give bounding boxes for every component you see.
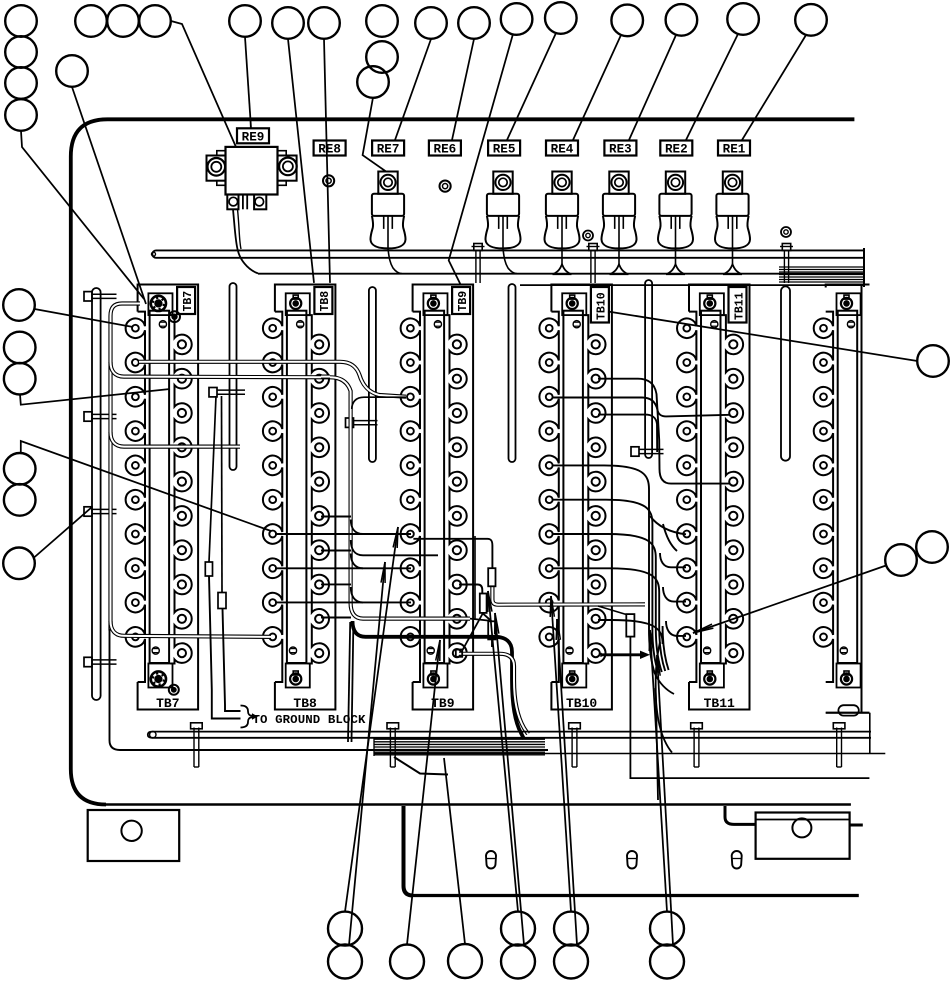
relay RE5 [485, 172, 520, 274]
callout balloon [650, 912, 684, 946]
leader line [629, 35, 676, 140]
lead from RE9 label to panel edge [250, 121, 252, 128]
svg-text:RE6: RE6 [434, 143, 457, 157]
standoff rod between TB9 and TB10 [509, 284, 516, 462]
relay RE9 [207, 147, 297, 209]
leader line [349, 562, 385, 945]
wire sleeve-a out (outlined) [492, 586, 645, 604]
leader line [507, 33, 556, 140]
callout balloon [390, 945, 424, 979]
callout balloon [501, 945, 535, 979]
extra screw TB7 bottom [169, 685, 179, 695]
callout balloon [916, 531, 948, 563]
leader line [171, 21, 236, 147]
wire from RE9 [233, 209, 258, 273]
wire sleeve-b to lug [463, 613, 484, 650]
callout balloon [4, 453, 36, 485]
wire branch from bundle t7 [351, 520, 363, 535]
wire along lower rail [110, 629, 549, 750]
callout balloon [272, 7, 304, 39]
wire stubs TB8 right [321, 517, 351, 618]
callout balloon [107, 5, 139, 37]
wire crossing to TB11 left t7 [650, 516, 686, 551]
svg-text:RE3: RE3 [609, 143, 632, 157]
relay RE3 [601, 172, 636, 275]
rail pin bolt [833, 723, 845, 767]
relay RE4 [544, 172, 579, 275]
callout balloon [795, 4, 827, 36]
label RE8 [314, 141, 346, 157]
callout balloon [308, 7, 340, 39]
leader line [21, 441, 271, 531]
keyhole slot [627, 851, 637, 869]
svg-text:TB7: TB7 [156, 696, 179, 711]
callout balloon [5, 99, 37, 131]
svg-text:TB11: TB11 [704, 696, 735, 711]
keyhole slot [732, 851, 742, 869]
callout balloon [5, 5, 37, 37]
sleeve TB10 area [626, 614, 634, 637]
callout balloon [4, 363, 36, 395]
leader line [395, 39, 431, 140]
leader line [34, 507, 93, 558]
wire below sleeve-c [491, 639, 493, 647]
label RE7 [372, 141, 404, 157]
terminal block (partial, right edge) [814, 285, 870, 713]
leader line [72, 87, 146, 304]
label RE6 [429, 141, 461, 157]
label RE9 [237, 128, 269, 144]
wires TB10 to TB11 upper [552, 379, 730, 484]
leader line [488, 591, 518, 912]
wire branch to rail [656, 688, 673, 753]
wire TB9 right bottom [459, 654, 528, 734]
grommet screw near RE3 [583, 231, 593, 241]
terminal block TB10 [539, 285, 611, 712]
wire below TB10 sleeve [630, 637, 869, 779]
wire bundle (seven conductors, right run) [779, 267, 864, 282]
rail pin bolt [191, 723, 203, 767]
leader line [363, 98, 386, 172]
resistor (sleeve) R-a [488, 568, 495, 586]
wire TB9 right vertical [474, 536, 476, 620]
svg-text:TB8: TB8 [319, 291, 332, 312]
svg-text:RE1: RE1 [723, 143, 746, 157]
wire fan TB10 tail [655, 674, 674, 694]
standoff rod between TB7 and TB8 [230, 283, 237, 470]
wire TB8 t7 to TB9 t7 [275, 533, 411, 535]
callout balloon [4, 484, 36, 516]
label RE2 [660, 141, 692, 157]
callout balloon [366, 41, 398, 73]
wire left riser [111, 304, 141, 631]
svg-text:RE2: RE2 [665, 143, 688, 157]
grommet RE6 [440, 181, 451, 192]
callout balloon [885, 544, 917, 576]
terminal block TB11 [677, 285, 749, 712]
callout balloon [501, 912, 535, 946]
svg-text:TB11: TB11 [733, 292, 746, 320]
svg-text:RE8: RE8 [318, 143, 341, 157]
panel outline (chassis plate) [71, 119, 855, 804]
callout balloon [75, 5, 107, 37]
standoff rod left of TB7 [92, 288, 101, 700]
svg-text:TB10: TB10 [596, 292, 609, 320]
leader line [608, 312, 917, 362]
svg-text:TO GROUND BLOCK: TO GROUND BLOCK [253, 713, 366, 727]
wire riser bend C [111, 432, 241, 447]
keyhole slot [486, 851, 496, 869]
standoff rod right of TB11 [781, 286, 790, 460]
wire to TB10 sleeve [598, 606, 626, 615]
leader line [686, 34, 738, 140]
bracket to ground [241, 706, 259, 728]
leader line [288, 39, 314, 283]
chassis bottom edge [411, 894, 859, 897]
lower mounting rail [148, 732, 886, 754]
leader line [20, 389, 170, 405]
standoff rod between TB10 and TB11 [645, 280, 652, 458]
leader line [324, 39, 330, 283]
callout balloon [3, 289, 35, 321]
wire TB8 right t2 tail [321, 375, 330, 379]
callout balloon [554, 912, 588, 946]
wire riser bend D [111, 621, 272, 637]
callout balloon [611, 5, 643, 37]
wire TB9 left t3 hook [352, 397, 406, 409]
wire TB10 to TB11 bottom [601, 651, 650, 659]
svg-text:RE7: RE7 [377, 143, 400, 157]
bolt on harness left [472, 244, 485, 284]
svg-text:TB7: TB7 [182, 291, 195, 312]
leader line [35, 309, 134, 327]
right mounting bracket [725, 806, 863, 859]
relay RE1 [715, 172, 750, 275]
svg-text:RE5: RE5 [493, 143, 516, 157]
resistor (sleeve) R-b [480, 594, 487, 613]
leader line [452, 39, 474, 140]
wire branch crossing TB9 [351, 540, 438, 555]
callout balloon [366, 5, 398, 37]
lower wire bundle [374, 738, 545, 775]
label RE3 [604, 141, 636, 157]
wire branch to TB11 left t9 [663, 587, 686, 602]
leader line [649, 630, 667, 912]
wire TB7 to TB8 (upper pair A) [139, 362, 406, 397]
callout balloon [139, 5, 171, 37]
wire branch to TB11 left t8 [660, 553, 686, 567]
mounting bolt on rod between TB7/TB8 [209, 388, 245, 397]
callout balloon [3, 548, 35, 580]
bolt on harness right [780, 244, 793, 284]
callout balloon [554, 945, 588, 979]
callout balloon [357, 66, 389, 98]
leader line [550, 596, 571, 912]
mounting bolt on left rod [84, 292, 117, 301]
bolt on harness middle [587, 244, 600, 284]
leader line [556, 619, 577, 945]
svg-text:RE4: RE4 [551, 143, 574, 157]
terminal block TB7 [126, 285, 198, 712]
svg-text:TB10: TB10 [566, 696, 597, 711]
wire down from TB10/TB11 gap [656, 642, 660, 800]
leader line [742, 35, 806, 140]
left mounting bracket [88, 810, 180, 861]
relay RE2 [658, 172, 693, 275]
callout balloon [448, 944, 482, 978]
svg-text:RE9: RE9 [242, 130, 265, 144]
standoff rod between TB8 and TB9 [369, 287, 376, 462]
slot right block bottom [838, 705, 858, 715]
wire to sleeve Rc [470, 619, 489, 621]
wire harness (upper horizontal run) [152, 248, 865, 287]
wire branch from bundle t9 [351, 587, 363, 602]
wire fan legs down [348, 622, 353, 742]
wire TB9 to sleeve-a [413, 539, 492, 568]
callout balloon [545, 2, 577, 34]
wire branch to TB11 left t10 [666, 621, 686, 636]
leader line [449, 34, 513, 284]
text TO GROUND BLOCK [253, 713, 366, 727]
mounting bolt on rod between TB8/TB9 [346, 418, 378, 427]
callout balloon [650, 945, 684, 979]
wire fan TB10 down [552, 465, 669, 674]
right edge vertical tie [869, 713, 871, 754]
leader line [693, 566, 886, 634]
wire riser bend B [111, 362, 331, 377]
label RE5 [488, 141, 520, 157]
grommet screw near RE1 [781, 227, 791, 237]
callout balloon [328, 945, 362, 979]
leader line [573, 35, 621, 140]
callout balloon [917, 345, 949, 377]
wire TB8 t8 to TB9 t8 [275, 567, 411, 569]
leader line [345, 527, 398, 912]
svg-text:TB8: TB8 [293, 696, 317, 711]
callout balloon [458, 7, 490, 39]
label RE1 [718, 141, 750, 157]
mounting bolt on left rod [84, 412, 117, 421]
mounting bolt on rod between TB10/TB11 [631, 447, 664, 456]
relay RE7 [370, 172, 405, 274]
thick wire below TB9 [353, 621, 525, 739]
chassis divider [404, 806, 414, 896]
label RE4 [546, 141, 578, 157]
callout balloon [666, 4, 698, 36]
wire B drop (vertical in TB8/TB9 gap) [330, 377, 470, 618]
wire branch from bundle t8 [351, 554, 363, 569]
resistor (sleeve) R-c [488, 621, 495, 639]
leader line [21, 131, 144, 299]
rail pin bolt [569, 723, 581, 767]
leader line [444, 758, 465, 944]
wire TB9 t8 to sleeve-b [459, 585, 482, 594]
callout balloon [4, 332, 36, 364]
grommet RE8 [323, 175, 334, 186]
callout balloon [56, 55, 88, 87]
rail pin bolt [387, 723, 399, 767]
callout balloon [727, 3, 759, 35]
terminal block TB8 [263, 285, 335, 712]
svg-text:TB9: TB9 [457, 291, 470, 312]
mounting bolt on left rod [84, 507, 117, 516]
leader line [656, 655, 673, 945]
leader line [245, 37, 251, 128]
leader line [407, 640, 440, 945]
mounting bolt on left rod [84, 657, 117, 666]
svg-text:TB9: TB9 [431, 696, 455, 711]
right block bottom tie [826, 712, 870, 714]
wire sleeve-b to sleeve-c [482, 613, 491, 621]
terminal lug TB9 right t10 [456, 650, 462, 657]
callout balloon [5, 36, 37, 68]
terminal block TB9 [401, 285, 473, 712]
wire TB8 t9 to TB9 t9 [275, 601, 411, 603]
extra screw TB7 top [169, 311, 180, 322]
callout balloon [501, 3, 533, 35]
callout balloon [415, 7, 447, 39]
callout balloon [328, 912, 362, 946]
ground wires from TB7 [205, 396, 240, 719]
callout balloon [229, 5, 261, 37]
callout balloon [5, 67, 37, 99]
rail pin bolt [691, 723, 703, 767]
leader line [495, 613, 524, 945]
